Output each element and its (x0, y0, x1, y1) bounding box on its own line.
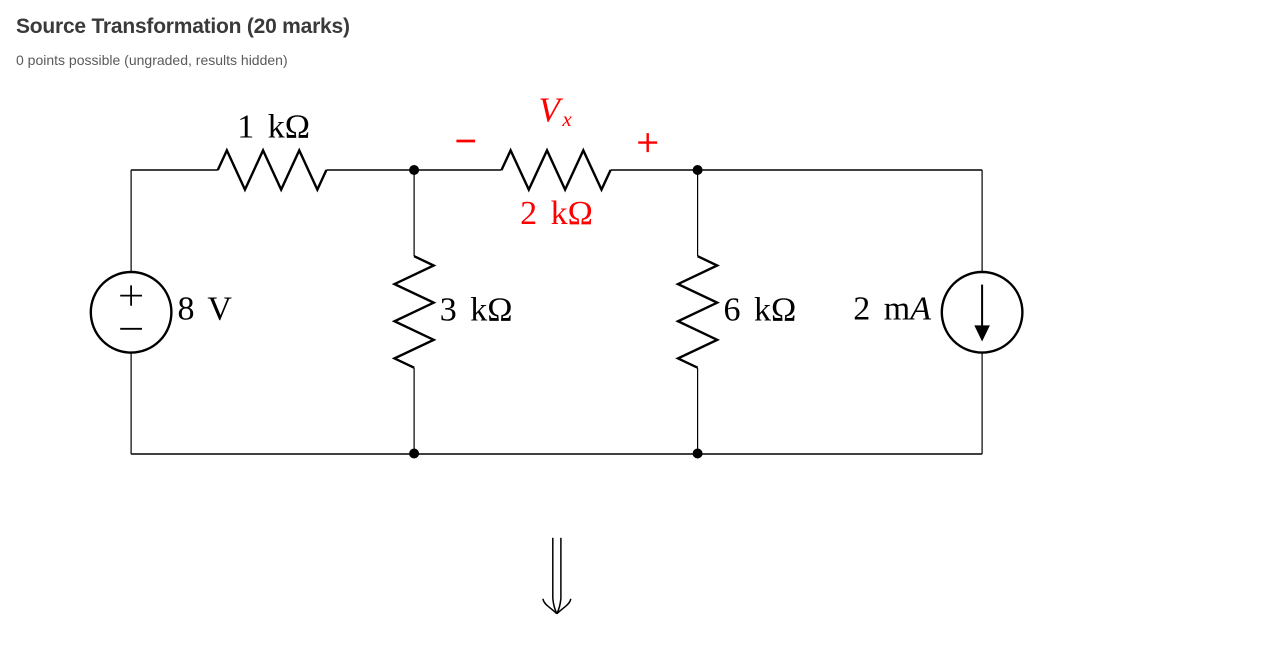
voltage source V1 circle (91, 272, 172, 353)
node C junction dot bottom-left (409, 449, 419, 459)
label Vx (539, 91, 573, 132)
wire R2 to node B (611, 169, 983, 171)
label 8 V (178, 291, 233, 328)
resistor R1 1 kOhm (218, 150, 327, 189)
wire R1 to node A (326, 169, 501, 171)
resistor R2 2 kOhm (502, 150, 611, 189)
voltage source minus sign (120, 328, 142, 330)
svg-text:2 kΩ: 2 kΩ (520, 195, 593, 232)
wire middle vertical lower (413, 368, 415, 454)
label 2 kOhm (520, 195, 593, 232)
wire left vertical lower (130, 353, 132, 454)
wire left vertical upper (130, 170, 132, 272)
wire top-left segment (131, 169, 218, 171)
label 1 kOhm (237, 109, 310, 146)
label plus polarity (638, 133, 657, 152)
wire right-middle vertical lower (697, 368, 699, 454)
wire right vertical upper (981, 170, 983, 272)
svg-text:1 kΩ: 1 kΩ (237, 109, 310, 146)
svg-text:8 V: 8 V (178, 291, 233, 328)
current source arrow (974, 285, 990, 342)
resistor R4 6 kOhm (678, 256, 717, 368)
node D junction dot bottom-right (693, 449, 703, 459)
node B junction dot top (693, 165, 703, 175)
svg-text:Vx: Vx (539, 91, 573, 132)
wire right vertical lower (981, 353, 983, 454)
svg-text:6 kΩ: 6 kΩ (724, 292, 797, 329)
voltage source plus sign (120, 285, 142, 305)
wire right-middle vertical upper (697, 170, 699, 256)
wire middle vertical upper (413, 170, 415, 256)
resistor R3 3 kOhm (395, 256, 434, 368)
implication double arrow down (543, 538, 571, 614)
label 3 kOhm (440, 292, 513, 329)
svg-text:2 mA: 2 mA (853, 291, 931, 328)
wire bottom (131, 453, 982, 455)
label minus polarity (456, 140, 475, 143)
node A junction dot top (409, 165, 419, 175)
label 6 kOhm (724, 292, 797, 329)
current source I1 circle (942, 272, 1023, 353)
svg-text:3 kΩ: 3 kΩ (440, 292, 513, 329)
label 2 mA (853, 291, 931, 328)
